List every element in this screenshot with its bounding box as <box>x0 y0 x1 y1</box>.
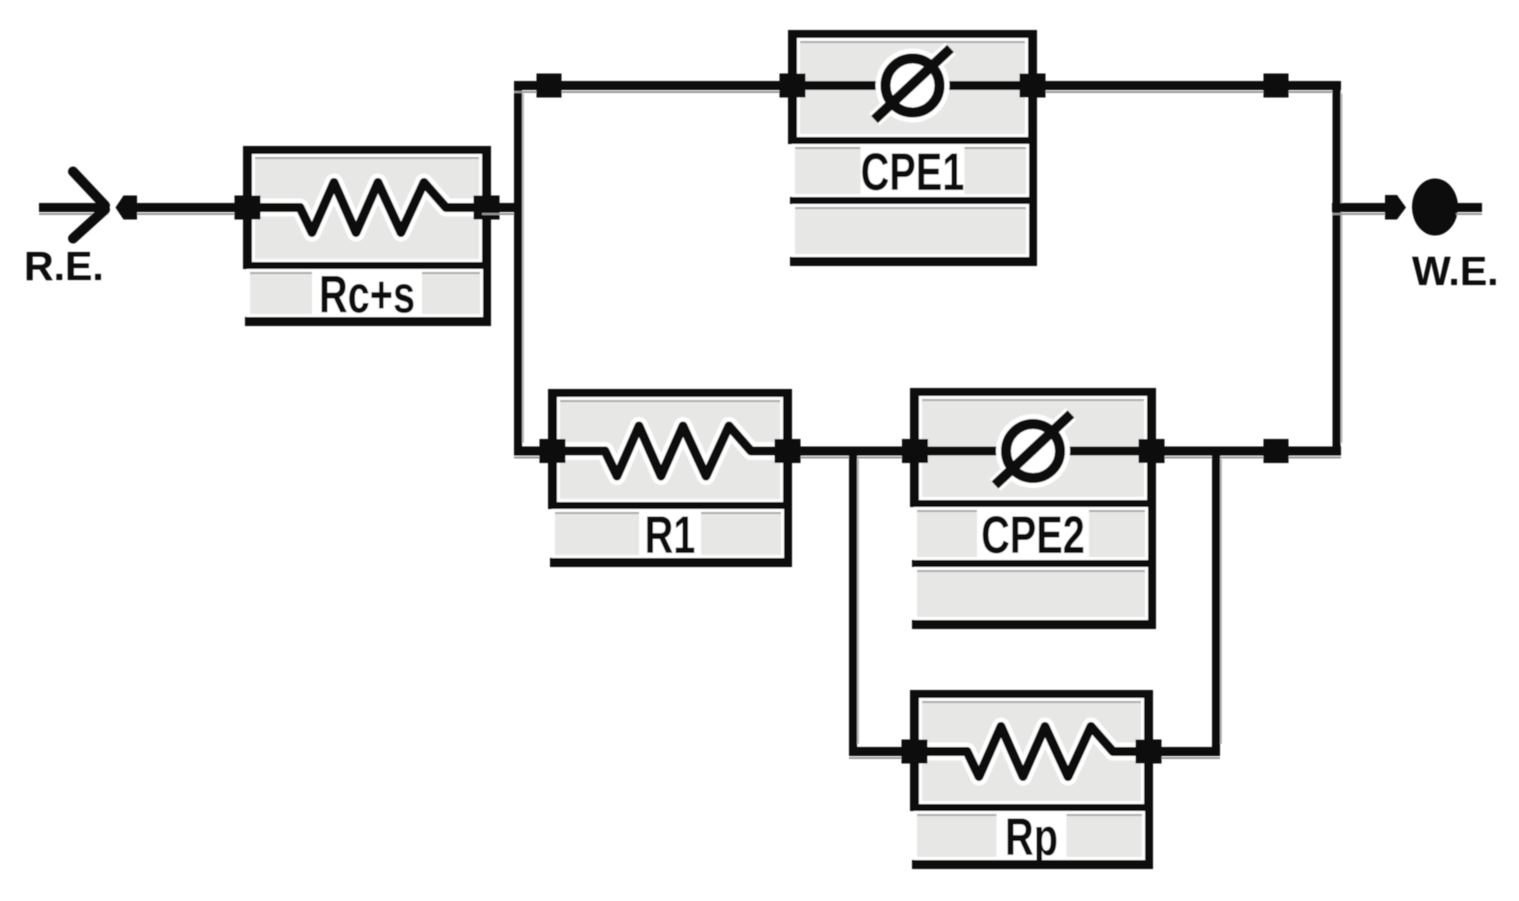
wire CPE2 to right corner <box>1154 447 1220 459</box>
wire left vertical node <box>514 82 524 456</box>
pin square R1 right <box>775 439 801 463</box>
svg-text:CPE1: CPE1 <box>861 142 965 201</box>
wire R1 to CPE2 <box>783 447 912 459</box>
label R.E. <box>24 243 104 289</box>
pin square R1 left <box>540 439 566 463</box>
pin square Rc+s right <box>474 196 500 220</box>
wire right vertical node <box>1333 82 1343 456</box>
pin square Rp right <box>1136 740 1162 764</box>
wire top branch right <box>1035 81 1341 93</box>
capacitor-CPE element CPE2 <box>910 388 1156 629</box>
wire stub right of W.E. dot <box>1456 203 1482 215</box>
terminal R.E. arrow chevron <box>73 172 105 239</box>
pin square Rc+s left <box>235 196 261 220</box>
wire drop left to Rp <box>849 447 859 756</box>
junction node bottom-right <box>1264 439 1289 463</box>
arrowhead at R.E. node (points left) <box>116 196 138 220</box>
label W.E. <box>1412 248 1499 294</box>
resistor Rc+s <box>243 146 491 326</box>
resistor R1 <box>548 389 792 567</box>
svg-text:R.E.: R.E. <box>24 243 104 289</box>
wire input from R.E. terminal <box>39 203 246 215</box>
terminal W.E. dot <box>1412 179 1458 236</box>
pin square CPE1 left <box>780 74 806 98</box>
wire drop right from Rp <box>1212 447 1222 756</box>
wire Rc+s to parallel node <box>482 203 523 215</box>
wire bottom branch left <box>514 447 552 459</box>
resistor Rp <box>910 690 1153 869</box>
pin square CPE1 right <box>1020 74 1046 98</box>
wire Rp row right <box>1148 747 1220 759</box>
svg-text:R1: R1 <box>645 505 696 564</box>
wire Rp row left <box>849 747 916 759</box>
junction node top-left <box>537 74 562 98</box>
pin square CPE2 left <box>902 439 928 463</box>
wire top branch left <box>514 81 790 93</box>
svg-text:W.E.: W.E. <box>1412 248 1499 294</box>
wire output to W.E. <box>1332 203 1385 215</box>
capacitor-CPE element CPE1 <box>788 30 1037 266</box>
junction node top-right <box>1264 74 1289 98</box>
arrowhead at W.E. (points right) <box>1385 195 1406 220</box>
svg-text:CPE2: CPE2 <box>981 505 1085 564</box>
svg-text:Rc+s: Rc+s <box>319 265 415 324</box>
pin square CPE2 right <box>1139 439 1165 463</box>
svg-text:Rp: Rp <box>1005 807 1058 866</box>
wire corner to right vertical <box>1212 447 1341 459</box>
pin square Rp left <box>902 740 928 764</box>
